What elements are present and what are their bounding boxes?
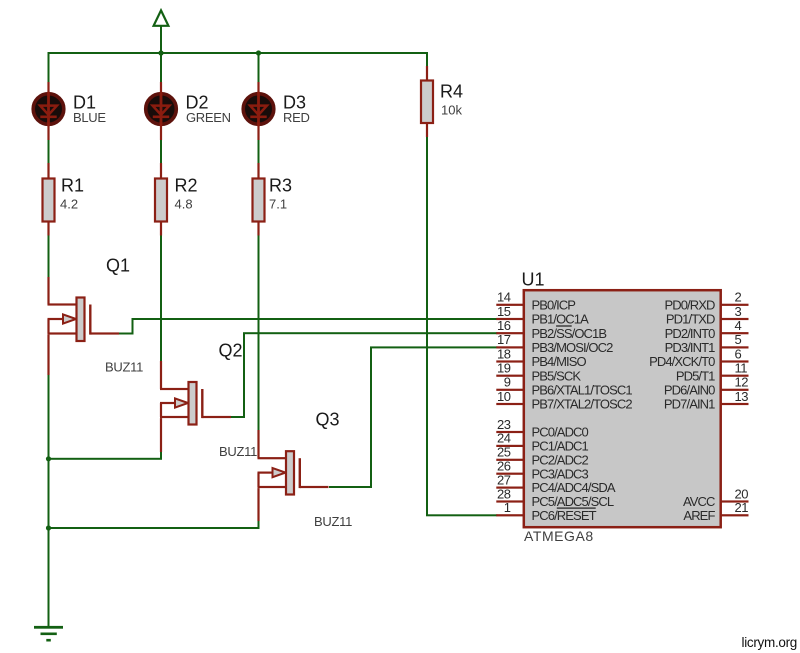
pin 4 PD2/INT0 [665, 318, 749, 341]
pin 26 PC3/ADC3 [496, 459, 588, 482]
svg-text:GREEN: GREEN [186, 110, 231, 125]
wire R1 to Q1 drain [48, 236, 50, 278]
svg-text:PB5/SCK: PB5/SCK [532, 368, 582, 383]
wire Q3 source to ground rail [49, 521, 260, 529]
pin 3 PD1/TXD [666, 304, 749, 327]
pin 13 PD7/AIN1 [664, 389, 749, 412]
resistor R3 pins [257, 163, 259, 236]
svg-text:21: 21 [735, 500, 749, 515]
power symbol (arrow) [154, 10, 169, 53]
pin 5 PD3/INT1 [665, 332, 749, 355]
svg-text:4.8: 4.8 [175, 197, 193, 212]
wire rail to D3 anode [258, 53, 260, 82]
svg-text:PB1/OC1A: PB1/OC1A [532, 312, 590, 327]
power rail node VCC : top horizontal wire [48, 52, 429, 54]
svg-text:PC1/ADC1: PC1/ADC1 [532, 439, 589, 454]
svg-text:PC3/ADC3: PC3/ADC3 [532, 466, 589, 481]
svg-text:R4: R4 [440, 82, 463, 102]
ground [34, 626, 63, 642]
Q3 source lead down [257, 488, 259, 521]
pin 15 PB1/OC1A [496, 304, 589, 327]
svg-text:R2: R2 [175, 176, 198, 196]
svg-text:U1: U1 [522, 270, 545, 290]
LED D3 [243, 92, 274, 126]
svg-text:2: 2 [735, 290, 742, 305]
svg-text:Q2: Q2 [219, 341, 243, 361]
svg-text:11: 11 [735, 361, 748, 376]
junction at power arrow / D2 branch [158, 50, 163, 55]
svg-text:PD1/TXD: PD1/TXD [666, 312, 715, 327]
wire rail to R4 [426, 53, 428, 66]
svg-text:4: 4 [735, 318, 742, 333]
Q2 source lead down [160, 418, 162, 452]
svg-text:14: 14 [497, 290, 511, 305]
resistor R2 [155, 179, 167, 222]
svg-text:15: 15 [497, 304, 511, 319]
svg-text:12: 12 [735, 375, 749, 390]
svg-text:26: 26 [497, 459, 511, 474]
LED D1 pins [47, 82, 49, 140]
transistor Q3 [257, 451, 328, 494]
wire D3 to R3 [258, 140, 260, 163]
svg-text:18: 18 [497, 346, 511, 361]
svg-text:27: 27 [497, 472, 511, 487]
wire Q1 source down [47, 335, 49, 627]
LED D2 [146, 92, 177, 126]
svg-text:PB2/SS/OC1B: PB2/SS/OC1B [532, 326, 607, 341]
wire Q2 gate to PB2/OC1B (pin 16) [231, 332, 497, 418]
wire rail to D2 anode [160, 53, 162, 82]
resistor R4 [421, 81, 433, 124]
svg-text:PD2/INT0: PD2/INT0 [665, 326, 716, 341]
svg-text:PD4/XCK/T0: PD4/XCK/T0 [649, 354, 715, 369]
LED D1 [33, 92, 64, 126]
transistor Q2 [160, 382, 231, 425]
svg-text:PD7/AIN1: PD7/AIN1 [664, 397, 715, 412]
svg-text:1: 1 [504, 500, 511, 515]
pin 10 PB7/XTAL2/TOSC2 [496, 389, 632, 412]
svg-text:AVCC: AVCC [683, 494, 715, 509]
svg-text:19: 19 [497, 361, 511, 376]
svg-text:20: 20 [735, 486, 749, 501]
svg-text:PC5/ADC5/SCL: PC5/ADC5/SCL [532, 494, 614, 509]
svg-text:ATMEGA8: ATMEGA8 [524, 528, 594, 544]
svg-text:licrym.org: licrym.org [742, 635, 798, 650]
junction at D3 branch [256, 50, 261, 55]
junction Q3 source rail [46, 525, 51, 530]
svg-text:PC2/ADC2: PC2/ADC2 [532, 452, 589, 467]
pin 9 PB6/XTAL1/TOSC1 [496, 375, 632, 398]
pin 23 PC0/ADC0 [496, 417, 588, 440]
wire Q2 source to ground rail [49, 452, 163, 460]
svg-text:23: 23 [497, 417, 511, 432]
wire rail to D1 anode [48, 53, 50, 82]
svg-text:PC4/ADC4/SDA: PC4/ADC4/SDA [532, 480, 616, 495]
pin 6 PD4/XCK/T0 [649, 346, 748, 369]
svg-text:PD6/AIN0: PD6/AIN0 [664, 382, 715, 397]
svg-text:BLUE: BLUE [73, 110, 106, 125]
svg-text:PD5/T1: PD5/T1 [676, 368, 715, 383]
LED D3 pins [257, 82, 259, 140]
svg-text:PB3/MOSI/OC2: PB3/MOSI/OC2 [532, 340, 614, 355]
svg-text:7.1: 7.1 [269, 197, 287, 212]
junction Q2 source rail [46, 456, 51, 461]
pin 28 PC5/ADC5/SCL [496, 486, 614, 509]
svg-text:13: 13 [735, 389, 749, 404]
wire D1 to R1 [48, 140, 50, 163]
pin 11 PD5/T1 [676, 361, 749, 384]
resistor R3 [253, 179, 265, 222]
svg-text:3: 3 [735, 304, 742, 319]
svg-text:R3: R3 [269, 176, 292, 196]
pin 19 PB5/SCK [496, 361, 581, 384]
pin 27 PC4/ADC4/SDA [496, 472, 616, 495]
Q2 drain lead vertical [160, 361, 162, 389]
pin 2 PD0/RXD [664, 290, 748, 313]
svg-text:4.2: 4.2 [60, 197, 78, 212]
svg-text:25: 25 [497, 445, 511, 460]
svg-text:16: 16 [497, 318, 511, 333]
pin 12 PD6/AIN0 [664, 375, 749, 398]
svg-text:BUZ11: BUZ11 [219, 444, 257, 459]
pin 17 PB3/MOSI/OC2 [496, 332, 613, 355]
svg-text:PC6/RESET: PC6/RESET [532, 508, 597, 523]
svg-text:Q1: Q1 [106, 256, 130, 276]
svg-text:PB6/XTAL1/TOSC1: PB6/XTAL1/TOSC1 [532, 382, 633, 397]
resistor R1 pins [47, 163, 49, 236]
svg-text:BUZ11: BUZ11 [314, 514, 352, 529]
svg-text:Q3: Q3 [316, 410, 340, 430]
resistor R2 pins [160, 163, 162, 236]
svg-text:10k: 10k [441, 103, 462, 118]
svg-text:PC0/ADC0: PC0/ADC0 [532, 425, 589, 440]
pin 14 PB0/ICP [496, 290, 575, 313]
svg-text:24: 24 [497, 431, 511, 446]
svg-text:6: 6 [735, 346, 742, 361]
transistor Q1 [47, 298, 119, 342]
svg-text:28: 28 [497, 486, 511, 501]
svg-text:RED: RED [283, 110, 310, 125]
wire Q3 gate to PB3/OC2 (pin 17) [329, 346, 497, 488]
svg-text:PB7/XTAL2/TOSC2: PB7/XTAL2/TOSC2 [532, 397, 633, 412]
svg-text:BUZ11: BUZ11 [105, 360, 143, 375]
svg-text:PB4/MISO: PB4/MISO [532, 354, 587, 369]
svg-text:17: 17 [497, 332, 511, 347]
svg-text:PD0/RXD: PD0/RXD [664, 297, 715, 312]
pin 21 AREF [683, 500, 748, 523]
svg-text:9: 9 [504, 375, 511, 390]
svg-text:10: 10 [497, 389, 511, 404]
svg-text:PD3/INT1: PD3/INT1 [665, 340, 716, 355]
pin 24 PC1/ADC1 [496, 431, 588, 454]
pin 1 PC6/RESET [496, 500, 596, 523]
svg-text:AREF: AREF [683, 508, 715, 523]
wire R2 to Q2 drain [160, 236, 162, 362]
svg-text:5: 5 [735, 332, 742, 347]
Q1 drain lead vertical [47, 277, 49, 305]
pin 16 PB2/SS/OC1B [496, 318, 606, 341]
wire D2 to R2 [160, 140, 162, 163]
pin 18 PB4/MISO [496, 346, 586, 369]
pin 25 PC2/ADC2 [496, 445, 588, 468]
LED D2 pins [160, 82, 162, 140]
resistor R1 [43, 179, 55, 222]
Q3 drain lead vertical [257, 430, 259, 458]
wire R4 to pin PC6/RESET [426, 137, 497, 516]
wire R3 to Q3 drain [258, 236, 260, 431]
pin 20 AVCC [683, 486, 749, 509]
svg-text:R1: R1 [61, 176, 84, 196]
resistor R4 pins [426, 66, 428, 137]
svg-text:PB0/ICP: PB0/ICP [532, 297, 576, 312]
IC U1 ATMEGA8 body [524, 290, 721, 527]
wire Q1 gate to PB1/OC1A (pin 15) [119, 318, 497, 335]
